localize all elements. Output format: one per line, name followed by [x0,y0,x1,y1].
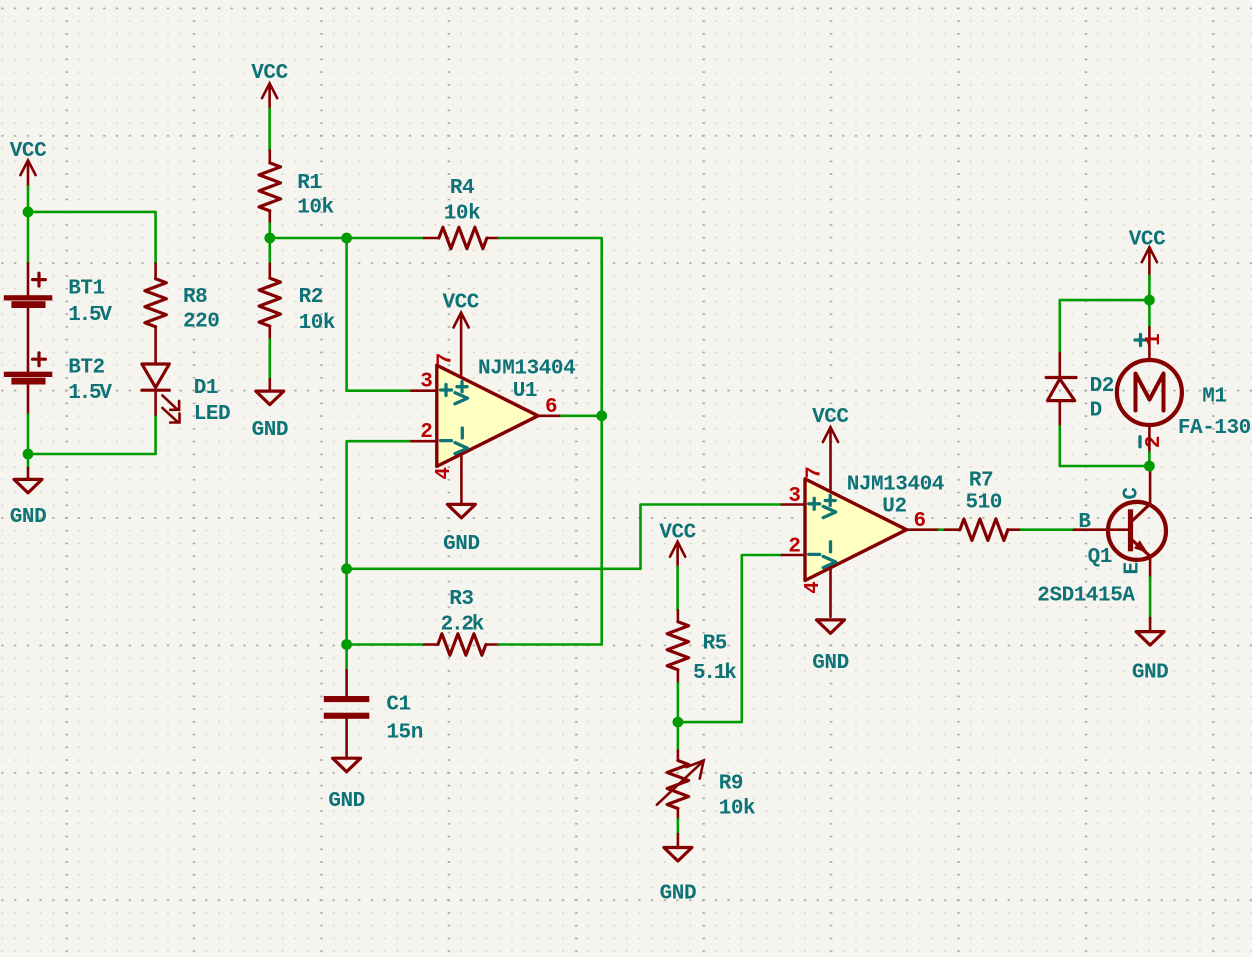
wire VCC down to node [27,186,30,212]
op-amp U1 NJM13404 [437,357,575,466]
U2 pin 4 V- [802,542,836,617]
svg-text:R9: R9 [719,773,743,796]
svg-text:7: 7 [435,353,458,366]
svg-text:C: C [1121,487,1144,500]
svg-text:D: D [1090,400,1102,423]
svg-text:1.5V: 1.5V [68,382,112,405]
wire R1 to divider node [268,224,271,239]
svg-text:15n: 15n [386,722,422,745]
svg-text:NJM13404: NJM13404 [847,474,944,497]
resistor R7 [945,470,1021,541]
junction node VCC-left [23,207,34,218]
svg-text:4: 4 [802,581,825,594]
svg-text:Q1: Q1 [1088,546,1112,569]
U2 pin 7 V+ [803,466,835,517]
svg-text:GND: GND [443,533,479,556]
svg-text:6: 6 [914,510,927,533]
svg-text:M1: M1 [1202,386,1226,409]
motor M1 FA-130 [1117,327,1251,452]
wire R5 to node E [677,683,680,722]
svg-text:R4: R4 [450,177,474,200]
ground GND (R2) [252,339,288,442]
junction output node U1 [596,410,607,421]
svg-text:D1: D1 [194,377,218,400]
junction node D (R3/C1 tap) [341,639,352,650]
resistor R4 [424,177,499,249]
svg-text:10k: 10k [719,798,755,821]
resistor R2 [259,238,335,339]
U1 pin 4 V- [433,428,468,503]
svg-text:510: 510 [965,492,1001,515]
ground GND (R9) [660,819,696,905]
wire ground node to LED branch [28,415,156,454]
svg-text:BT2: BT2 [68,356,104,379]
power VCC (left) [10,140,47,186]
svg-text:U1: U1 [513,380,537,403]
Q1 emitter pin [1149,558,1152,578]
wire node to BT1 [27,212,30,263]
resistor R3 [347,416,602,655]
wire VCC to R5 [676,567,679,610]
wire node F to D2 top [1060,300,1150,353]
wire divider node to R4 [270,237,424,240]
wire node to R8 branch [28,212,156,264]
svg-text:VCC: VCC [1129,228,1166,251]
potentiometer R9 [657,722,755,820]
svg-text:U2: U2 [882,496,906,519]
svg-text:6: 6 [545,396,558,419]
U1 pin 2 stub [411,421,451,444]
LED D1 [142,364,230,426]
svg-text:2: 2 [1143,435,1166,448]
svg-text:10k: 10k [444,203,480,226]
svg-text:R2: R2 [299,286,323,309]
Q1 collector pin [1149,466,1152,505]
svg-text:FA-130: FA-130 [1178,417,1251,440]
wire R4 to feedback column [499,238,602,416]
svg-text:C1: C1 [386,694,410,717]
wire VCC to R1 [268,109,271,151]
power VCC (U2 pin7) [812,406,849,492]
svg-text:GND: GND [1132,662,1168,685]
svg-text:R7: R7 [969,470,993,493]
svg-text:NJM13404: NJM13404 [478,357,575,380]
wire R7 to Q1 base [1021,528,1074,531]
junction node ground-left [23,449,34,460]
battery BT1 [4,263,113,371]
ground GND (C1) [328,758,364,813]
U2 pin 6 output stub [907,510,939,533]
svg-text:GND: GND [10,506,46,529]
power VCC (R5) [659,522,696,567]
wire node E to U2 pin2 [678,555,782,722]
power VCC (M1) [1129,228,1166,275]
junction node G (D2/collector) [1144,461,1155,472]
svg-text:R3: R3 [449,588,473,611]
ground GND (U1 pin4) [443,504,479,556]
svg-text:3: 3 [788,485,801,508]
svg-text:2.2k: 2.2k [441,614,484,637]
U2 pin 3 stub [782,485,820,509]
wire D2 bottom to node G [1060,426,1150,466]
junction node B [341,233,352,244]
svg-text:2: 2 [420,421,433,444]
junction divider node A [264,233,275,244]
svg-text:R5: R5 [703,633,727,656]
svg-text:GND: GND [252,419,288,442]
battery BT2 [4,353,113,415]
resistor R8 [145,263,220,364]
svg-text:5.1k: 5.1k [693,662,736,685]
svg-text:1.5V: 1.5V [68,304,112,327]
svg-text:10k: 10k [299,312,335,335]
junction node F (VCC/D2/M1) [1144,295,1155,306]
transistor Q1 2SD1415A [1037,487,1166,608]
ground GND (U2 pin4) [812,620,848,675]
wire BT2 to ground node [27,415,30,454]
svg-text:220: 220 [183,311,219,334]
wire U1 output to node [561,414,601,417]
ground GND (left) [10,454,46,529]
svg-text:2: 2 [788,535,801,558]
svg-text:B: B [1078,511,1091,534]
svg-text:4: 4 [433,467,456,480]
wire U2 output to R7 [939,528,945,531]
resistor R1 [259,150,334,223]
resistor R5 [667,610,736,685]
svg-text:GND: GND [328,790,364,813]
svg-text:1: 1 [1143,333,1166,346]
wire node C to node D [345,569,348,645]
svg-text:D2: D2 [1090,375,1114,398]
svg-text:BT1: BT1 [68,278,104,301]
svg-text:LED: LED [194,403,230,426]
svg-text:3: 3 [420,371,433,394]
U1 pin 7 V+ [435,353,468,404]
U1 pin 6 output stub [538,396,561,419]
diode D2 [1046,353,1114,426]
wire M1 pin2 to node G [1148,452,1151,466]
wire U1 pin2 branch [347,441,412,569]
ground GND (Q1) [1132,618,1168,685]
svg-text:R8: R8 [183,286,207,309]
capacitor C1 [324,645,423,759]
wire node F to M1 pin1 [1148,300,1151,327]
power VCC (U1 pin7) [442,292,479,378]
junction node E (R5/R9) [673,717,684,728]
U2 pin 2 stub [782,535,820,558]
wire VCC to node F [1148,276,1151,300]
op-amp U2 NJM13404 [805,474,944,581]
svg-text:10k: 10k [297,196,333,219]
svg-text:R1: R1 [297,172,321,195]
junction node C (feedback tap) [341,563,352,574]
wire node B down to U1 pin3 [347,238,412,391]
U1 pin 3 stub [411,371,451,396]
wire long feedback to U2 [347,505,782,569]
svg-text:GND: GND [660,883,696,906]
power VCC (R1 divider) [251,62,288,109]
svg-text:7: 7 [803,466,826,479]
svg-text:E: E [1121,562,1144,574]
svg-text:2SD1415A: 2SD1415A [1037,584,1135,607]
svg-text:GND: GND [812,652,848,675]
wire emitter to ground [1149,577,1152,618]
